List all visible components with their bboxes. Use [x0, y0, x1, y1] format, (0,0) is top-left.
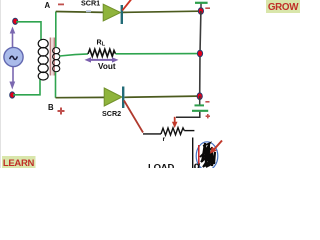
battery B2 minus	[205, 101, 209, 103]
wire primary bottom	[13, 80, 40, 95]
battery B1 plate	[195, 2, 208, 4]
wire SCR2 anode	[56, 96, 105, 98]
logo GROW	[266, 0, 300, 13]
battery B2 plate long	[192, 110, 208, 112]
wire load drop	[192, 138, 194, 169]
polarity plus at B	[58, 108, 65, 115]
battery B2 plus	[206, 114, 210, 118]
svg-text:SCR2: SCR2	[102, 109, 121, 118]
svg-text:LOAD: LOAD	[148, 163, 174, 169]
SCR1 thyristor	[103, 0, 131, 24]
wire SCR1 cathode	[123, 11, 198, 12]
gate current arrow	[172, 117, 178, 128]
battery B2 lead	[199, 96, 201, 105]
logo LEARN	[2, 156, 36, 169]
svg-text:A: A	[45, 1, 51, 10]
node dot mid right	[197, 50, 202, 56]
transformer T1 core	[50, 38, 54, 76]
wire resistor right	[184, 130, 194, 132]
waveform blob annotation	[194, 141, 222, 173]
artifact smudge	[86, 10, 91, 12]
SCR2 thyristor	[104, 87, 143, 133]
wire SCR1 anode	[56, 11, 104, 14]
battery B2 plate short	[195, 104, 205, 106]
svg-text:Vout: Vout	[98, 62, 116, 71]
transformer T1 primary winding	[38, 39, 48, 80]
svg-text:α: α	[194, 160, 201, 168]
battery B1 minus	[205, 7, 210, 9]
wire gate to resistor r	[143, 133, 161, 135]
svg-text:GROW: GROW	[268, 2, 299, 13]
wire secondary bottom lead	[55, 72, 57, 98]
resistor RL	[88, 49, 116, 56]
wire center tap	[60, 54, 89, 56]
wire cathode rail	[200, 11, 201, 96]
node dot source bottom	[10, 92, 15, 98]
svg-text:r: r	[163, 136, 166, 143]
ac source VS	[4, 27, 23, 90]
svg-text:B: B	[48, 103, 54, 112]
resistor r	[161, 128, 184, 136]
wire RL to rail	[116, 53, 199, 55]
polarity minus at A	[58, 3, 64, 5]
transformer T1 secondary winding	[53, 48, 60, 72]
svg-text:SCR1: SCR1	[81, 0, 100, 7]
svg-text:LEARN: LEARN	[3, 158, 35, 168]
Vout arrow	[85, 57, 119, 62]
node dot bottom right	[197, 93, 202, 100]
node dot top right	[198, 8, 203, 15]
wire primary top	[16, 22, 41, 41]
wire secondary top lead	[55, 12, 57, 48]
battery B1 lead	[200, 3, 202, 11]
wire SCR2 cathode	[125, 96, 198, 97]
node dot source top	[13, 18, 18, 24]
wire battery to gate resistor	[176, 112, 200, 118]
